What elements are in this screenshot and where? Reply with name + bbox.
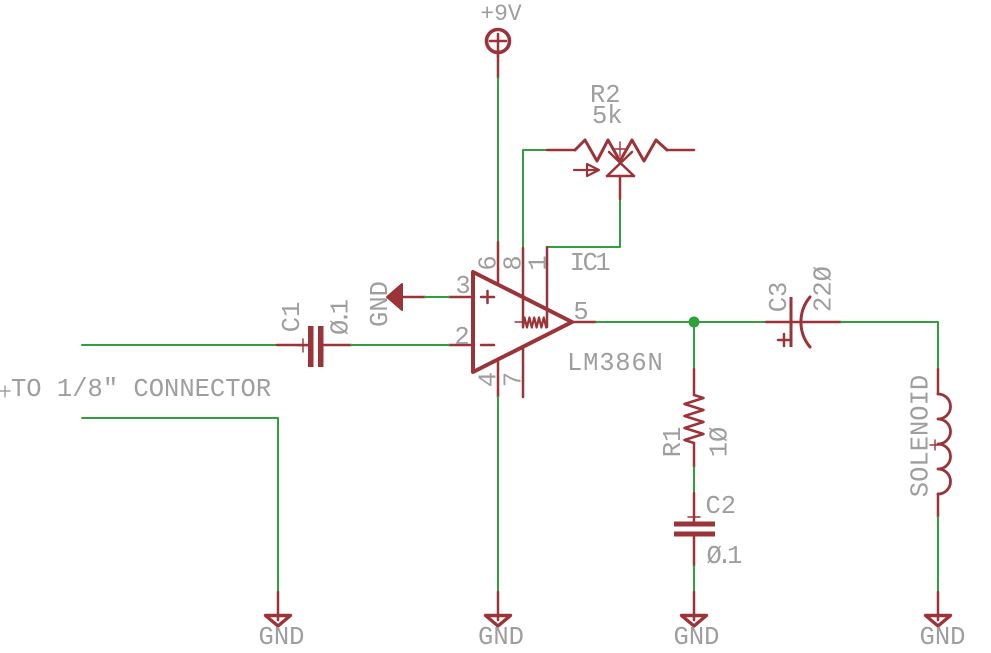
junction dot [689, 317, 700, 328]
internal gain resistor squiggle [515, 318, 547, 328]
wire input to C1 [82, 344, 277, 346]
potentiometer R2 [547, 140, 694, 199]
ground symbol below pin 4 [486, 592, 511, 626]
wire +9V rail to pin 6 [497, 78, 499, 242]
wire C2 to ground [693, 566, 695, 592]
svg-text:R1: R1 [659, 427, 688, 458]
svg-text:GND: GND [259, 623, 305, 652]
wire C3 to solenoid [841, 322, 938, 369]
capacitor C3 [766, 297, 841, 347]
resistor R1 [685, 369, 704, 467]
inductor SOLENOID [930, 369, 951, 517]
wire C1 to pin 2 [351, 344, 449, 346]
pin 7 stub [522, 347, 525, 397]
svg-text:1Ø: 1Ø [706, 427, 735, 458]
ground symbol bottom left [266, 592, 291, 626]
wire R2 left to pin 8 [523, 150, 547, 248]
minus mark at inverting input [481, 344, 494, 347]
ground symbol below solenoid [926, 592, 951, 626]
pin 5 stub [572, 321, 596, 324]
svg-text:GND: GND [478, 623, 524, 652]
supply symbol +9V [487, 30, 510, 79]
origin cross of connector text [0, 386, 10, 397]
ground symbol below C2 [682, 592, 707, 626]
svg-text:5: 5 [573, 298, 588, 327]
svg-text:SOLENOID: SOLENOID [907, 375, 936, 497]
pin 3 stub [449, 296, 473, 299]
svg-text:Ø.1: Ø.1 [707, 542, 743, 571]
svg-text:+9V: +9V [480, 1, 522, 27]
wire R1 to C2 [693, 467, 695, 493]
svg-text:GND: GND [674, 623, 720, 652]
wire pin 4 to ground [497, 397, 499, 592]
svg-text:C2: C2 [706, 492, 737, 521]
op-amp IC1 triangle [473, 272, 572, 372]
wire pin 3 to ground [425, 296, 449, 298]
plus mark at noninverting input [481, 291, 494, 303]
svg-text:C3: C3 [765, 282, 794, 313]
capacitor C1 [277, 326, 351, 367]
svg-text:7: 7 [500, 372, 529, 387]
pin 6 stub [497, 242, 500, 285]
svg-text:2: 2 [454, 323, 469, 352]
svg-text:Ø.1: Ø.1 [327, 299, 356, 335]
wire solenoid to ground [937, 517, 939, 592]
ground symbol at pin 3 [387, 284, 425, 310]
pin 1 stub [546, 247, 549, 327]
svg-text:3: 3 [455, 272, 470, 301]
svg-text:5k: 5k [592, 102, 623, 131]
svg-text:1: 1 [525, 255, 554, 270]
wire connector shield to ground [82, 418, 278, 592]
pin 8 stub [522, 248, 525, 327]
wire R2 wiper to pin 1 [547, 199, 620, 247]
svg-text:C1: C1 [278, 302, 307, 333]
capacitor C2 [674, 493, 715, 566]
svg-text:GND: GND [920, 623, 966, 652]
svg-text:GND: GND [366, 281, 395, 327]
svg-text:IC1: IC1 [570, 249, 611, 278]
pin 2 stub [449, 344, 473, 347]
pin 4 stub [497, 359, 500, 397]
svg-text:LM386N: LM386N [567, 349, 664, 378]
svg-text:22Ø: 22Ø [810, 266, 839, 312]
svg-text:TO 1/8" CONNECTOR: TO 1/8" CONNECTOR [11, 375, 271, 404]
wire pin 5 to C3 [596, 321, 766, 323]
wire junction down to R1 [693, 322, 695, 369]
